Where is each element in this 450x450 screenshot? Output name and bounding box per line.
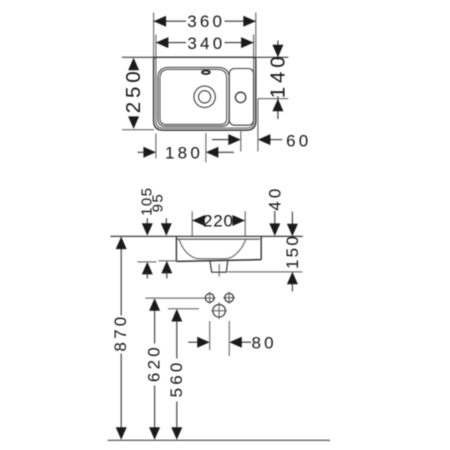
svg-text:250: 250 [122,68,145,114]
svg-text:560: 560 [167,359,186,397]
extension lines 340 [156,35,254,58]
dimension 60 left arrow and tail [212,139,229,141]
dimension 220 line [192,220,245,222]
front extension line (250 bottom) [122,129,154,131]
dimension 560 line [176,321,178,428]
dimension 150 lower arrow and tail [287,272,298,285]
dimension 620 line [154,310,156,428]
svg-text:95: 95 [150,193,167,213]
extension line 180 right (drain axis) [205,133,207,163]
fixing hole right [225,293,234,302]
floor line [108,439,330,441]
extension lines 80 [210,321,230,356]
svg-text:620: 620 [144,344,163,382]
dimension 140 arrows [272,45,283,58]
drain stub axis [218,264,220,277]
extension line 620 (holes) [145,297,215,299]
elevation left edge [175,236,177,261]
dimension 105 leader and top arrow [146,218,148,225]
drain inner circle [199,91,211,103]
svg-text:40: 40 [266,185,285,210]
svg-text:220: 220 [203,211,234,230]
hole 2 horizontal crosshair [223,297,235,299]
dimension 80 right arrow and tail [241,341,251,343]
elevation right edge [260,236,262,259]
rim inner contour [156,57,254,128]
dimension 870 arrows [116,237,127,250]
dimension 250 arrows [128,58,139,70]
svg-text:360: 360 [187,12,225,31]
elevation rim lower line [177,238,260,240]
overflow slot [202,71,210,74]
svg-text:60: 60 [286,132,311,151]
dimension 95 bottom arrow [161,261,172,274]
dimension 150 upper tail and arrow [291,212,293,226]
extension lines 220 [192,211,245,236]
dimension 220 arrows [192,215,205,226]
svg-text:150: 150 [283,234,302,269]
fixing hole left [205,294,214,303]
wall back line [122,56,288,58]
dimension 80 left arrow and tail [188,341,198,343]
extension line 95 bottom [158,260,177,262]
bowl inner contour [160,69,227,124]
dimension 360 arrows [154,16,167,27]
extension line 180 left [155,134,157,159]
dimension 105 bottom arrow [142,262,153,275]
extension line 60 left (tap axis) [240,131,242,151]
dimension 180 right arrow and tail [218,151,234,153]
extension lines 360 [154,13,256,58]
drain outer circle [194,86,215,107]
extension line 150 bottom [228,271,303,273]
extension line 560 (big hole) [168,308,199,310]
dimension 870 line [120,249,122,428]
tap hole [235,92,245,102]
drain stub [210,261,228,273]
outer ceramic contour [154,57,256,130]
dimension 140 line [277,41,279,120]
big drain hole [213,305,226,318]
extension line 140 bottom [258,98,288,100]
svg-text:340: 340 [187,34,225,53]
svg-text:140: 140 [267,53,290,99]
dimension 620 arrows [149,298,160,311]
svg-text:180: 180 [165,144,203,163]
dimension 360 line [154,20,256,22]
elevation bowl interior profile [179,239,246,259]
dimension 180 left arrow and tail [138,151,144,153]
dimension 60 right arrow and tail [270,139,282,141]
dimension 95 leader and top arrow [165,218,167,225]
extension line 105 bottom [137,261,156,263]
elevation top line [110,235,302,237]
svg-text:870: 870 [111,314,130,352]
shelf contour [229,69,253,126]
extension line 60 right [257,99,259,152]
elevation bottom edge [176,260,261,262]
dimension 560 arrows [171,309,182,322]
dimension 40 leader and arrow [274,211,276,225]
svg-text:80: 80 [251,333,276,352]
dimension 340 line [156,42,254,44]
bowl outer contour [158,67,229,126]
dimension 340 arrows [156,37,169,48]
